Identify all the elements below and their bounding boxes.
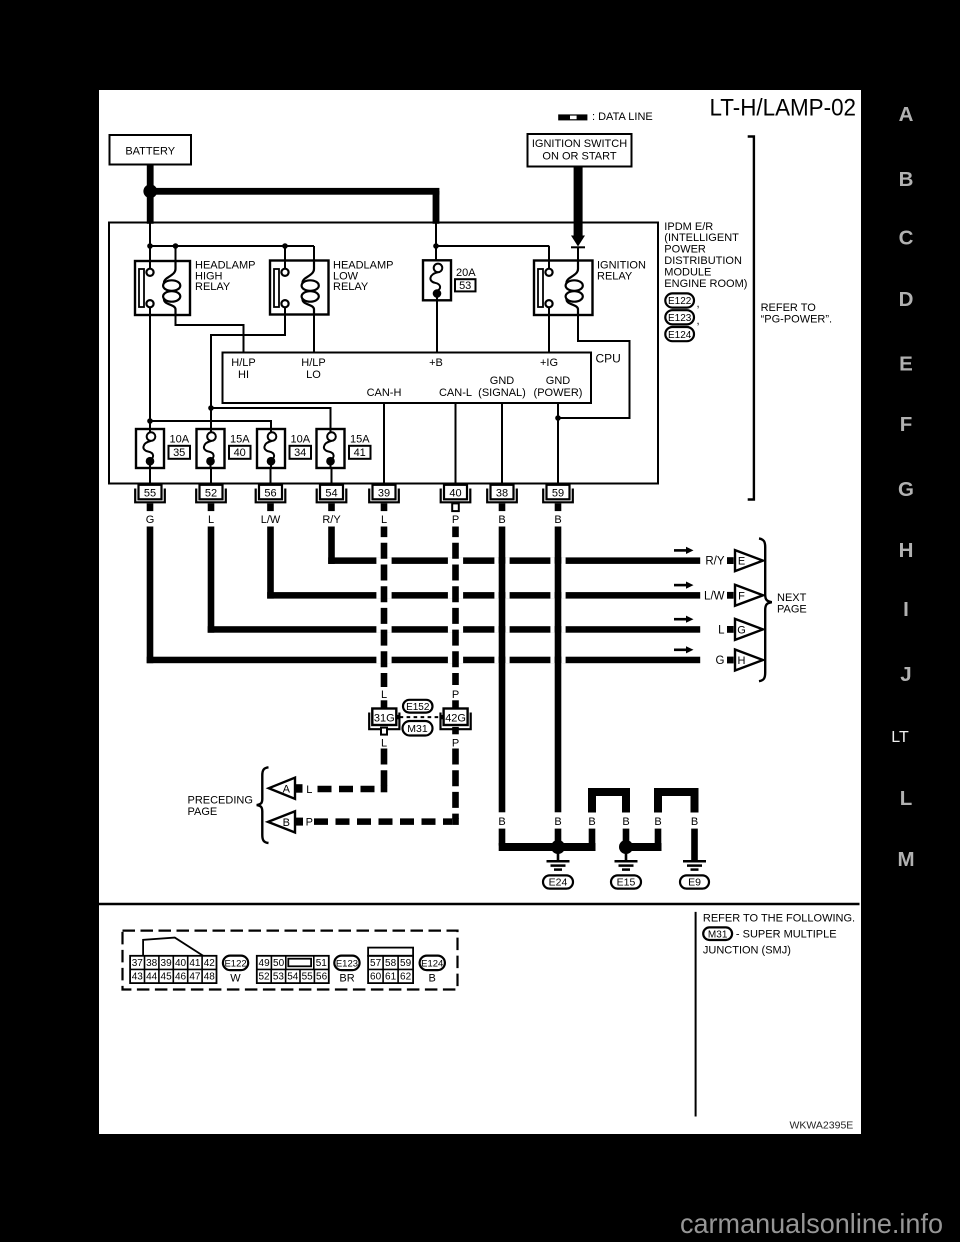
connector pin 59 — [543, 485, 573, 511]
svg-text:POWER: POWER — [664, 244, 706, 256]
svg-text:PRECEDING: PRECEDING — [188, 795, 253, 807]
wire V5 lower segment — [655, 829, 662, 846]
svg-text:E24: E24 — [549, 877, 568, 889]
svg-text:39: 39 — [161, 958, 173, 969]
off-page connector F (next page) — [735, 585, 763, 606]
connector pin 39 — [369, 485, 399, 511]
node dot low switch feeder — [208, 405, 214, 411]
brace next page — [759, 539, 772, 682]
CPU pin label GND (POWER) — [534, 375, 583, 399]
svg-text:G: G — [737, 624, 746, 636]
svg-text:CAN-H: CAN-H — [367, 387, 402, 399]
node square terminal P preceding — [295, 818, 304, 826]
svg-text:L: L — [381, 689, 387, 701]
svg-text:+B: +B — [429, 357, 443, 369]
svg-text:R/Y: R/Y — [322, 514, 341, 526]
svg-text:H: H — [899, 539, 914, 562]
refer to pg-power text — [761, 302, 833, 326]
svg-text:41: 41 — [189, 958, 201, 969]
fuse F40 labels — [229, 434, 251, 459]
svg-text:DISTRIBUTION: DISTRIBUTION — [664, 255, 742, 267]
preceding page label — [188, 795, 253, 819]
wire B vertical from pin 59 — [555, 527, 562, 813]
svg-text:M: M — [897, 848, 914, 871]
connector M31 oval — [403, 721, 433, 736]
CPU pin label H/LP LO — [301, 357, 325, 381]
fuse F53 20A — [423, 260, 451, 300]
wire stub into 42G — [452, 700, 459, 708]
fuse F53 number box 53 — [455, 279, 476, 292]
svg-text:IGNITION SWITCH: IGNITION SWITCH — [532, 138, 627, 150]
connector E152 oval — [403, 700, 433, 713]
svg-text:F: F — [900, 413, 913, 436]
wire V4 lower segment — [623, 829, 630, 842]
svg-text:E15: E15 — [617, 877, 636, 889]
connector pin 40 — [441, 485, 471, 511]
svg-text:31G: 31G — [374, 713, 395, 725]
fuse F34 10A — [257, 429, 285, 468]
dashed junction line between 31G and 42G — [397, 715, 443, 719]
wire battery bus horizontal (thick) — [150, 188, 439, 195]
wire bus1 battery distribution — [150, 245, 314, 247]
svg-text:54: 54 — [325, 487, 337, 499]
wire diode to ignition coil — [577, 248, 579, 270]
node bus1 dot at x175.5 — [173, 243, 179, 249]
wire L row to next page — [208, 626, 701, 633]
svg-text:L/W: L/W — [261, 514, 281, 526]
svg-text:E123: E123 — [668, 313, 692, 324]
svg-text:carmanualsonline.info: carmanualsonline.info — [680, 1208, 943, 1239]
wire B vertical from pin 38 — [499, 527, 506, 813]
svg-text:L/W: L/W — [704, 590, 725, 602]
off-page connector B (preceding page) — [268, 811, 295, 832]
connector E123 oval (detail) — [334, 956, 359, 971]
connector E124 housing outline — [368, 948, 413, 956]
fuse F41 15A — [317, 429, 345, 468]
node dot ignition coil return joins GND POWER — [555, 415, 561, 421]
IPDM E/R enclosure box — [109, 223, 658, 484]
wire L corner — [381, 786, 388, 793]
svg-text:54: 54 — [287, 972, 299, 983]
wire B ground bus2 — [623, 843, 662, 851]
node square terminal R/Y row — [727, 557, 734, 564]
svg-text:L: L — [381, 737, 387, 749]
svg-text:RELAY: RELAY — [195, 281, 231, 293]
svg-text:LO: LO — [306, 369, 321, 381]
svg-text:B: B — [622, 816, 629, 828]
svg-text:40: 40 — [449, 487, 461, 499]
wire B pin38 lower segment — [499, 829, 506, 846]
off-page connector H (next page) — [735, 650, 763, 671]
svg-text:ENGINE ROOM): ENGINE ROOM) — [664, 278, 747, 290]
svg-text:G: G — [898, 478, 914, 501]
node square terminal L preceding — [295, 784, 303, 793]
svg-text:E122: E122 — [668, 296, 692, 307]
connector E122 pin grid — [130, 956, 216, 983]
connector E124 oval (detail) — [420, 956, 445, 971]
ignition switch label — [532, 138, 627, 163]
svg-text:42: 42 — [204, 958, 216, 969]
wire CPU CAN-L to pin 40 — [455, 403, 457, 485]
svg-text:58: 58 — [385, 958, 397, 969]
svg-text:A: A — [899, 103, 914, 126]
svg-text:E124: E124 — [421, 959, 443, 970]
off-page connector G (next page) — [735, 619, 763, 640]
svg-text:B: B — [588, 816, 595, 828]
wire L/W row to next page — [267, 592, 700, 599]
svg-text:38: 38 — [146, 958, 158, 969]
svg-text:10A: 10A — [170, 434, 190, 446]
svg-text:55: 55 — [144, 487, 156, 499]
svg-text:B: B — [498, 514, 505, 526]
svg-text:PAGE: PAGE — [777, 603, 807, 615]
svg-text:E: E — [738, 556, 745, 568]
connector pin 52 — [196, 485, 226, 511]
svg-text:51: 51 — [316, 958, 328, 969]
relay K3 ignition relay — [534, 261, 593, 316]
connector M31 oval (note) — [703, 927, 732, 940]
wire fuse F41 to pin 54 — [331, 468, 333, 485]
wire feeder to fuse F34 — [150, 421, 271, 433]
connector pin 54 — [317, 485, 347, 511]
wire B loop V5-V6 (inverted U) — [658, 792, 695, 813]
node battery junction dot — [143, 184, 157, 198]
wire R/Y row to next page — [328, 557, 700, 564]
svg-text:L: L — [718, 625, 725, 637]
svg-text:B: B — [283, 817, 290, 829]
svg-text:HI: HI — [238, 369, 249, 381]
ground label E15 — [611, 875, 641, 888]
svg-text:(INTELLIGENT: (INTELLIGENT — [664, 232, 739, 244]
connector E122 housing outline — [143, 938, 203, 956]
wire feeder to fuse F41 — [211, 408, 331, 433]
svg-text:“PG-POWER”.: “PG-POWER”. — [761, 314, 833, 326]
svg-text:(SIGNAL): (SIGNAL) — [478, 387, 526, 399]
svg-text:B: B — [691, 816, 698, 828]
off-page connector A (preceding page) — [269, 778, 295, 799]
signal arrow above R/Y row — [674, 547, 694, 554]
svg-text:49: 49 — [259, 958, 271, 969]
wire CPU GND POWER to pin 59 — [557, 403, 559, 485]
signal arrow above L row — [674, 616, 694, 623]
svg-text:REFER TO: REFER TO — [761, 302, 817, 314]
wire fuse F35 to pin 55 — [149, 468, 151, 485]
wire G vertical (thick) from pin 55 — [147, 527, 154, 664]
ground symbol E24 — [547, 840, 570, 870]
svg-text:B: B — [899, 168, 914, 191]
wire B pin59 lower segment — [555, 829, 562, 842]
svg-text:59: 59 — [552, 487, 564, 499]
svg-text:P: P — [306, 817, 313, 829]
connector pin 38 — [487, 485, 517, 511]
wire CAN-L P dashed vertical upper — [452, 527, 459, 686]
svg-text:53: 53 — [273, 972, 285, 983]
svg-text:- SUPER MULTIPLE: - SUPER MULTIPLE — [736, 928, 837, 940]
SMJ terminal 31G — [369, 709, 399, 730]
svg-text:W: W — [230, 973, 241, 985]
connector pin 56 — [256, 485, 286, 511]
wire P dashed horizontal to preceding page — [314, 818, 452, 825]
CPU pin label GND (SIGNAL) — [478, 375, 526, 399]
svg-text:PAGE: PAGE — [188, 806, 218, 818]
ground label E24 — [543, 875, 573, 888]
svg-text:: DATA LINE: : DATA LINE — [592, 111, 653, 123]
connector detail dashed box — [123, 931, 458, 990]
svg-text:RELAY: RELAY — [333, 281, 369, 293]
svg-text:JUNCTION (SMJ): JUNCTION (SMJ) — [703, 944, 791, 956]
connector E124 oval — [665, 327, 694, 341]
svg-text:(POWER): (POWER) — [534, 387, 583, 399]
svg-text:,: , — [697, 315, 700, 327]
ground symbol E9 — [683, 861, 706, 869]
connector E122 oval — [665, 293, 694, 307]
svg-text:41: 41 — [354, 447, 366, 459]
svg-text:F: F — [738, 590, 745, 602]
wire fuse F34 to pin 56 — [270, 468, 272, 485]
svg-text:H/LP: H/LP — [231, 357, 255, 369]
node square terminal L row — [727, 626, 734, 633]
svg-text:MODULE: MODULE — [664, 266, 711, 278]
svg-text:50: 50 — [273, 958, 285, 969]
fuse F35 10A — [136, 429, 164, 468]
svg-text:M31: M31 — [407, 723, 428, 735]
svg-text:R/Y: R/Y — [705, 556, 725, 568]
ignition switch box — [528, 134, 632, 167]
svg-text:E9: E9 — [688, 877, 701, 889]
wire stub into 31G — [381, 700, 388, 708]
wire 20A fuse to CPU +B — [436, 300, 438, 352]
svg-text:CAN-L: CAN-L — [439, 387, 472, 399]
next page label — [777, 592, 807, 616]
svg-text:B: B — [554, 514, 561, 526]
svg-text:ON OR START: ON OR START — [542, 151, 616, 163]
wire L dashed vertical lower — [381, 749, 388, 787]
svg-text:J: J — [900, 663, 911, 686]
wire battery thin drop to bus1 — [149, 224, 151, 247]
svg-text:D: D — [899, 288, 914, 311]
wire stub below 42G — [452, 727, 459, 734]
svg-text:B: B — [498, 816, 505, 828]
svg-text:P: P — [452, 514, 459, 526]
svg-text:E124: E124 — [668, 330, 692, 341]
svg-text:L: L — [306, 784, 312, 796]
relay K3 label — [597, 260, 646, 283]
svg-text:CPU: CPU — [596, 351, 621, 365]
connector E124 pin grid — [368, 956, 413, 983]
svg-text:46: 46 — [175, 972, 187, 983]
svg-text:37: 37 — [132, 958, 144, 969]
wire bus1 feed low relay switch — [284, 246, 286, 269]
node bus1 dot at x150 — [147, 243, 153, 249]
svg-text:55: 55 — [302, 972, 314, 983]
connector E123 oval — [665, 310, 694, 324]
svg-text:34: 34 — [294, 447, 306, 459]
svg-text:H: H — [738, 655, 746, 667]
refer to the following note — [703, 913, 855, 925]
svg-text:B: B — [654, 816, 661, 828]
wire bus2 to ignition relay switch — [436, 245, 549, 247]
svg-text:38: 38 — [496, 487, 508, 499]
svg-text:IPDM E/R: IPDM E/R — [664, 221, 713, 233]
svg-text:L: L — [208, 514, 214, 526]
CPU box — [223, 353, 592, 404]
svg-text:B: B — [554, 816, 561, 828]
wire R/Y vertical (thick) from pin 54 — [328, 527, 335, 564]
vertical divider — [695, 912, 697, 1117]
relay K2 label — [333, 260, 394, 294]
ground label E9 — [680, 875, 709, 888]
node bus1 dot at x285 — [282, 243, 288, 249]
svg-text:E: E — [899, 353, 913, 376]
svg-text:39: 39 — [378, 487, 390, 499]
brace preceding page — [257, 767, 269, 843]
svg-text:59: 59 — [400, 958, 412, 969]
legend: data line symbol — [558, 114, 587, 120]
wire fuse F40 to pin 52 — [210, 468, 212, 485]
svg-text:GND: GND — [546, 375, 571, 387]
svg-text:E123: E123 — [336, 959, 358, 970]
wire battery drop to 20A fuse (thick) — [433, 191, 440, 224]
wire G row to next page — [147, 657, 701, 664]
svg-text:57: 57 — [370, 958, 382, 969]
connector pin 55 — [135, 485, 165, 511]
wire high relay switch to fuse F35 — [149, 315, 151, 433]
white diagram sheet — [99, 90, 861, 1134]
svg-text:45: 45 — [161, 972, 173, 983]
svg-text:20A: 20A — [456, 267, 476, 279]
svg-text:C: C — [899, 226, 914, 249]
wire B ground bus1 — [499, 843, 596, 851]
node dot high switch feeder — [147, 418, 153, 424]
svg-text:15A: 15A — [230, 434, 250, 446]
svg-text:E122: E122 — [224, 959, 246, 970]
svg-text:+IG: +IG — [540, 357, 558, 369]
svg-text:44: 44 — [146, 972, 158, 983]
svg-text:P: P — [452, 737, 459, 749]
wire B loop V3-V4 (inverted U) — [592, 792, 626, 813]
svg-text:LT: LT — [891, 729, 909, 746]
svg-text:I: I — [903, 598, 909, 621]
svg-text:L: L — [381, 514, 387, 526]
wire battery feed vertical (thick) — [147, 165, 154, 192]
svg-text:52: 52 — [258, 972, 270, 983]
svg-text:LT-H/LAMP-02: LT-H/LAMP-02 — [710, 95, 857, 122]
wire high relay coil to CPU H/LP HI — [176, 315, 244, 353]
svg-text:B: B — [429, 973, 436, 985]
wire bus2 feed ignition relay switch — [548, 246, 550, 269]
wire CAN-H L dashed vertical upper — [381, 527, 388, 688]
fuse F34 labels — [290, 434, 312, 459]
svg-text:P: P — [452, 689, 459, 701]
super multiple junction text — [703, 928, 837, 956]
wire P corner — [452, 818, 459, 825]
node bus2 dot at 20A fuse — [433, 243, 439, 249]
wire ignition relay coil return around CPU — [558, 315, 630, 418]
node square terminal L/W row — [727, 592, 734, 599]
wire bus1 feed low relay coil — [313, 246, 315, 270]
IPDM E/R description text — [664, 221, 747, 290]
svg-text:53: 53 — [459, 280, 471, 292]
svg-text:REFER TO THE FOLLOWING.: REFER TO THE FOLLOWING. — [703, 913, 855, 925]
svg-text:BATTERY: BATTERY — [125, 145, 175, 157]
wire L vertical (thick) from pin 52 — [208, 527, 215, 633]
separator rule — [99, 903, 860, 905]
diode D1 (ignition feed) — [571, 236, 585, 248]
svg-text:61: 61 — [385, 972, 397, 983]
svg-text:60: 60 — [370, 972, 382, 983]
connector E122 oval (detail) — [223, 956, 248, 971]
svg-text:,: , — [697, 298, 700, 310]
svg-text:62: 62 — [400, 972, 412, 983]
fuse F40 15A — [197, 429, 225, 468]
node square terminal G row — [727, 657, 734, 664]
bracket refer to pg-power — [748, 137, 754, 500]
svg-text:NEXT: NEXT — [777, 592, 807, 604]
svg-text:52: 52 — [205, 487, 217, 499]
svg-text:BR: BR — [339, 973, 354, 985]
fuse F41 labels — [349, 434, 371, 459]
relay K2 headlamp low relay — [270, 261, 329, 315]
svg-text:WKWA2395E: WKWA2395E — [789, 1119, 853, 1131]
wire ignition relay switch to CPU +IG — [548, 307, 550, 352]
svg-text:M31: M31 — [708, 929, 728, 940]
wire low relay coil to CPU H/LP LO — [313, 315, 315, 353]
svg-text:43: 43 — [132, 972, 144, 983]
wire bus1 feed high relay switch — [149, 246, 151, 269]
relay K1 label — [195, 260, 256, 294]
svg-text:A: A — [283, 783, 291, 795]
wire low relay switch to fuse F40 — [211, 315, 285, 433]
svg-text:42G: 42G — [445, 713, 466, 725]
svg-text:L: L — [900, 787, 913, 810]
svg-text:10A: 10A — [291, 434, 311, 446]
wire CPU CAN-H to pin 39 — [383, 403, 385, 485]
signal arrow above L/W row — [674, 582, 694, 589]
wire battery drop into IPDM (thick) — [147, 191, 154, 224]
svg-text:GND: GND — [490, 375, 515, 387]
wire bus1 feed high relay coil — [175, 246, 177, 270]
connector E123 pin grid — [257, 956, 329, 983]
svg-text:15A: 15A — [350, 434, 370, 446]
svg-text:56: 56 — [316, 972, 328, 983]
relay K1 headlamp high relay — [135, 261, 190, 315]
signal arrow above G row — [674, 646, 694, 653]
wire crossover gaps at row junctions — [376, 557, 565, 663]
off-page connector E (next page) — [735, 550, 763, 571]
wire stub below 31G (white dash) — [381, 728, 387, 735]
wire V6 to ground E9 — [691, 829, 698, 862]
ground symbol E15 — [615, 840, 638, 870]
wire L dashed horizontal to preceding page — [318, 786, 381, 793]
CPU pin label H/LP HI — [231, 357, 255, 381]
svg-text:G: G — [716, 655, 725, 667]
wire ignition switch feed (thick) — [574, 166, 583, 236]
svg-text:35: 35 — [173, 447, 185, 459]
svg-text:RELAY: RELAY — [597, 270, 633, 282]
wire V3 lower segment — [589, 829, 596, 846]
SMJ terminal 42G — [441, 709, 471, 730]
svg-text:48: 48 — [204, 972, 216, 983]
svg-text:E152: E152 — [406, 702, 430, 713]
battery box — [110, 135, 192, 165]
svg-text:H/LP: H/LP — [301, 357, 325, 369]
wire CPU GND SIGNAL to pin 38 — [501, 403, 503, 485]
svg-text:40: 40 — [175, 958, 187, 969]
fuse F35 labels — [169, 434, 191, 459]
svg-text:G: G — [146, 514, 155, 526]
svg-text:56: 56 — [264, 487, 276, 499]
svg-text:47: 47 — [189, 972, 201, 983]
